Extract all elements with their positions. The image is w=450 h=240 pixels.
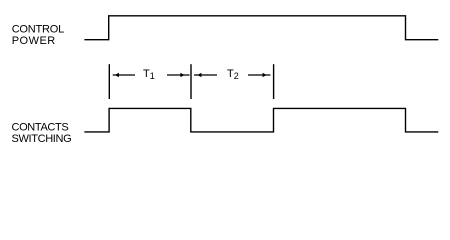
svg-text:CONTACTS: CONTACTS	[12, 122, 69, 134]
svg-text:CONTROL: CONTROL	[12, 23, 64, 35]
svg-text:1: 1	[150, 71, 155, 81]
svg-text:2: 2	[234, 71, 239, 81]
svg-text:POWER: POWER	[12, 35, 56, 47]
svg-text:SWITCHING: SWITCHING	[12, 133, 72, 145]
